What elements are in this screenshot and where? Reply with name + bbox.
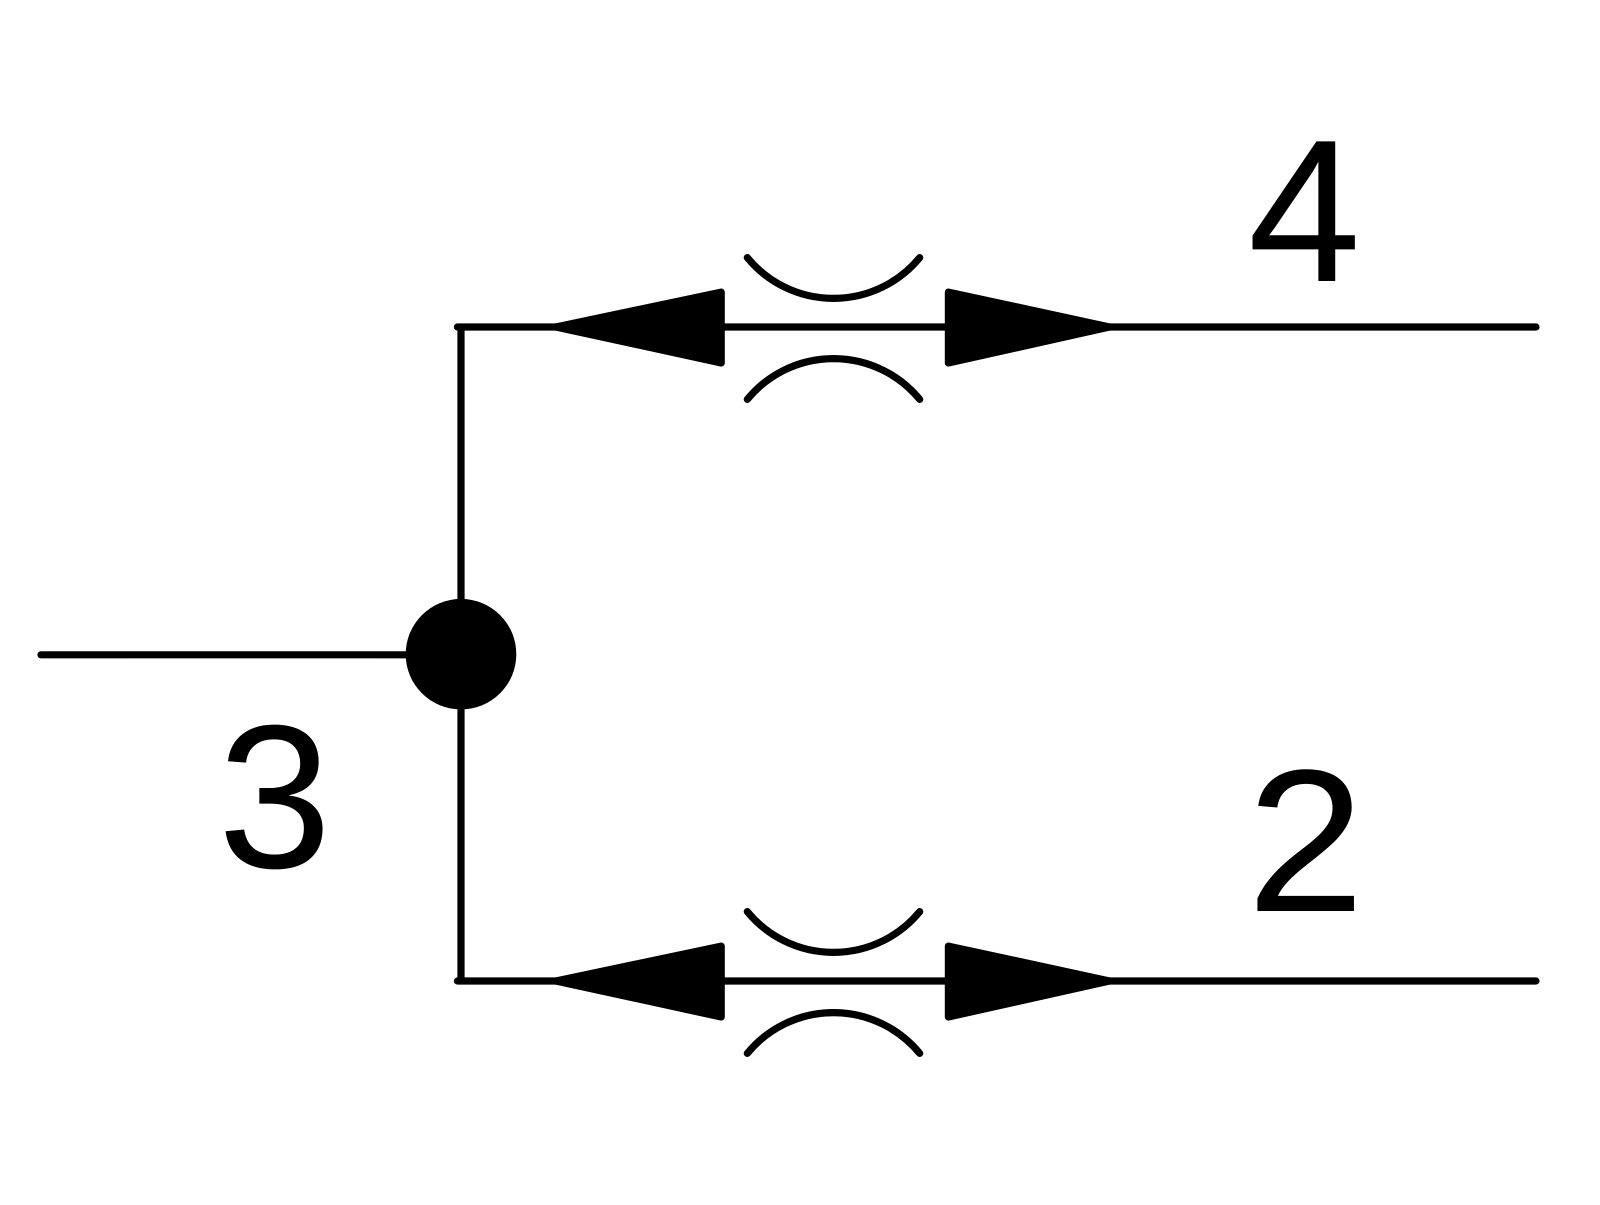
svg-text:2: 2 bbox=[1247, 728, 1365, 955]
flow arrow right (top symbol) bbox=[948, 292, 1109, 363]
restriction arc upper (bottom symbol) bbox=[747, 912, 919, 953]
wire: vertical branch between top and bottom rails bbox=[457, 327, 464, 981]
junction node (tee connection dot) bbox=[406, 599, 517, 710]
port label 3 bbox=[218, 683, 332, 911]
flow arrow left (bottom symbol) bbox=[556, 946, 722, 1017]
flow arrow left (top symbol) bbox=[556, 292, 722, 363]
svg-text:3: 3 bbox=[218, 683, 332, 911]
svg-text:4: 4 bbox=[1248, 98, 1361, 325]
wire: port 3 lead (left horizontal) bbox=[41, 651, 461, 658]
restriction arc lower (top symbol) bbox=[747, 359, 919, 400]
port label 2 bbox=[1247, 728, 1365, 955]
port label 4 bbox=[1248, 98, 1361, 325]
wire: bottom rail (port 2 line) bbox=[457, 977, 1536, 984]
flow arrow right (bottom symbol) bbox=[948, 946, 1109, 1017]
wire: top rail (port 4 line) bbox=[457, 323, 1536, 330]
restriction arc upper (top symbol) bbox=[747, 258, 919, 299]
restriction arc lower (bottom symbol) bbox=[747, 1013, 919, 1054]
